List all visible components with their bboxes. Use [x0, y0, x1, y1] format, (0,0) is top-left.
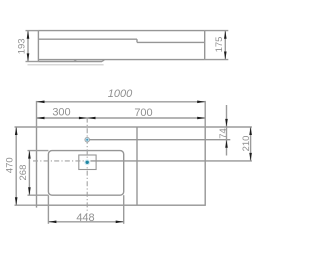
dim 1000/300: left extension line above plan	[36, 101, 38, 127]
centerline: vertical dash-dot through faucet and drain	[86, 118, 88, 214]
dim 1000: arrowhead left	[37, 101, 45, 104]
dim 300: arrowhead left	[37, 117, 45, 120]
drain: light-blue ring	[84, 159, 90, 165]
plan view: basin bowl rounded rectangle	[48, 151, 123, 196]
side view: bowl underside chamfer right	[102, 60, 105, 62]
dim 193: bottom extension line	[26, 61, 39, 63]
dim 470: bottom extension line	[15, 204, 37, 206]
dim 448: arrowhead left	[48, 221, 56, 224]
side view: bottom edge	[38, 59, 204, 61]
svg-text:448: 448	[76, 212, 94, 224]
dim 448: arrowhead right	[116, 221, 124, 224]
dim 210: arrowhead down	[249, 153, 252, 161]
dim 700: arrowhead right	[197, 117, 205, 120]
dim 268: bottom extension line	[28, 194, 49, 196]
svg-text:193: 193	[16, 38, 27, 54]
dim 175: top extension line	[205, 30, 229, 32]
dim 193: dimension line	[27, 31, 29, 62]
side view: inner deck line right	[137, 41, 205, 43]
centerline: horizontal dash-dot to drain	[33, 160, 85, 162]
dim 300/700: dimension line	[37, 117, 206, 119]
dim 300: arrowhead right at centerline	[79, 117, 87, 120]
dim 74: dimension/extension vertical line	[226, 105, 228, 156]
side view: faint lower shadow line	[28, 64, 104, 66]
side view: inner deck line left	[38, 38, 137, 40]
side view: top edge	[38, 30, 204, 32]
faucet hole: outer ring	[85, 137, 90, 142]
dim 1000: dimension line	[37, 101, 206, 103]
dim 470: arrowhead down	[15, 197, 18, 205]
side view: bowl underside slant tick	[74, 60, 77, 62]
dim 193: top extension line	[26, 30, 39, 32]
svg-text:300: 300	[52, 107, 70, 119]
dim 210: arrowhead up	[249, 127, 252, 135]
dim 193: arrowhead down	[27, 53, 30, 61]
plan view: drain extension line	[90, 160, 252, 162]
svg-text:470: 470	[5, 157, 16, 173]
dim 175: arrowhead down	[224, 52, 227, 60]
dim 74: top extension line (plan top)	[205, 126, 252, 128]
dim 210: dimension line	[250, 127, 252, 161]
plan view: outline rectangle	[37, 127, 206, 205]
dim 74: arrowhead up (below)	[225, 140, 228, 148]
dim 448: dimension line	[48, 221, 123, 223]
dim 268: arrowhead up	[28, 151, 31, 159]
dim 470: arrowhead up	[15, 127, 18, 135]
plan view: drain square	[79, 155, 96, 170]
side view: left edge	[37, 31, 39, 62]
dim 74: arrowhead down (above)	[225, 119, 228, 127]
dim 193: arrowhead up	[27, 31, 30, 39]
dim 175: bottom extension line	[205, 59, 229, 61]
svg-text:1000: 1000	[108, 88, 133, 100]
faucet hole: blue center dot	[86, 139, 88, 141]
drain: teal disc	[86, 161, 89, 164]
svg-text:175: 175	[214, 37, 225, 53]
plan view: faucet-hole extension line	[90, 139, 231, 141]
dim 268: arrowhead down	[28, 187, 31, 195]
side view: bowl underside line	[38, 61, 102, 63]
plan view: step line	[136, 127, 138, 205]
dim 1000/700: right extension line above plan	[204, 101, 206, 127]
dim 175: arrowhead up	[224, 31, 227, 39]
svg-text:74: 74	[218, 128, 229, 139]
side view: right edge	[204, 31, 206, 60]
dim 268: top extension line	[28, 150, 49, 152]
side view: deck step	[136, 39, 138, 42]
dim 268: dimension line	[28, 151, 30, 196]
svg-text:210: 210	[241, 136, 252, 152]
dim 448: left extension line	[47, 195, 49, 224]
dim 700: arrowhead left at centerline	[88, 117, 96, 120]
svg-text:700: 700	[134, 107, 152, 119]
plan view: left edge overshoot below	[36, 205, 38, 207]
dim 470: dimension line	[15, 127, 17, 205]
dim 1000: arrowhead right	[197, 101, 205, 104]
dim 448: right extension line	[123, 195, 125, 224]
dim 175: dimension line	[224, 31, 226, 60]
svg-text:268: 268	[18, 165, 29, 181]
dim 470: top extension line	[15, 126, 37, 128]
